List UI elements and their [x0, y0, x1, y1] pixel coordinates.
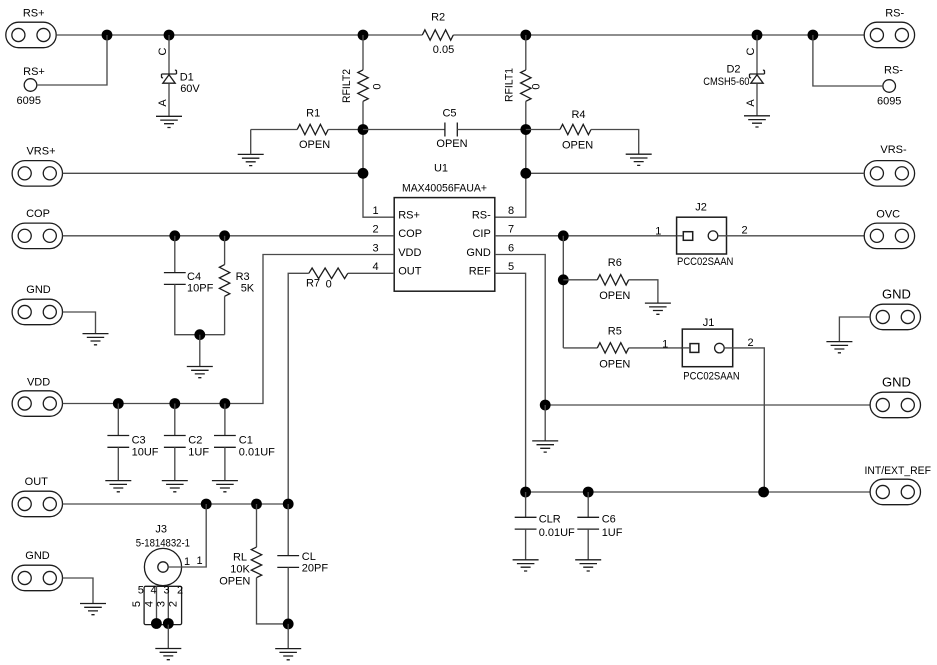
connector GND [12, 299, 62, 325]
svg-text:COP: COP [398, 228, 422, 240]
svg-text:1UF: 1UF [602, 527, 623, 539]
svg-text:GND: GND [882, 375, 911, 390]
svg-text:0: 0 [372, 84, 384, 90]
wire J2 pin2 to OVC [718, 235, 864, 237]
svg-text:C3: C3 [132, 434, 146, 446]
ground RL/CL [275, 649, 301, 660]
svg-text:5K: 5K [241, 282, 255, 294]
svg-text:0: 0 [531, 84, 543, 90]
svg-text:CMSH5-60: CMSH5-60 [703, 76, 749, 88]
svg-text:RFILT1: RFILT1 [504, 68, 516, 102]
node junction VRS+ [358, 168, 369, 179]
svg-text:VRS+: VRS+ [26, 146, 55, 158]
connector RS+ [6, 22, 56, 48]
node junction RL/CL [283, 619, 294, 630]
svg-text:2: 2 [168, 601, 180, 607]
capacitor C1 0.01UF [224, 404, 226, 436]
connector VDD [12, 391, 62, 417]
ground CLR [513, 560, 539, 571]
svg-text:0.05: 0.05 [433, 44, 454, 56]
wire GND right1 to ground [839, 317, 870, 342]
connector COP [12, 223, 62, 249]
svg-text:3: 3 [156, 601, 168, 607]
svg-text:A: A [745, 99, 757, 107]
svg-text:0: 0 [326, 279, 332, 291]
svg-text:R5: R5 [608, 326, 622, 338]
svg-text:RS-: RS- [885, 8, 904, 20]
svg-text:3: 3 [372, 242, 378, 254]
diode D1 60V [162, 70, 177, 78]
node junction CL [283, 499, 294, 510]
ground [826, 342, 852, 353]
svg-text:1: 1 [662, 339, 668, 351]
svg-text:GND: GND [882, 287, 911, 302]
wire D1 cathode [168, 35, 170, 74]
ground C4/R3 [187, 367, 213, 378]
svg-text:10PF: 10PF [187, 282, 214, 294]
svg-text:20PF: 20PF [302, 563, 329, 575]
wire D2 anode [756, 83, 758, 115]
wire D1 anode [168, 83, 170, 116]
wire C4 top [174, 236, 176, 273]
wire GND stub to ground [544, 405, 546, 441]
svg-text:PCC02SAAN: PCC02SAAN [677, 256, 733, 268]
wire J3 pin 3 [167, 586, 169, 623]
node junction R1/C5 [358, 124, 369, 135]
wire to ground [199, 335, 201, 367]
svg-text:6: 6 [508, 242, 514, 254]
wire CIP vertical [562, 236, 564, 348]
resistor RFILT2 [358, 70, 368, 101]
wire pin7 CIP to J2 [495, 235, 677, 237]
capacitor C2 1UF [174, 404, 176, 436]
wire top rail RS+ to RS- [56, 34, 864, 36]
connector OUT [12, 491, 62, 517]
svg-text:VRS-: VRS- [880, 144, 907, 156]
wire GND to ground [63, 312, 96, 334]
resistor R5 OPEN [597, 343, 628, 353]
resistor R1 OPEN [297, 124, 328, 134]
node junction R6 [558, 274, 569, 285]
wire D2 cathode [756, 35, 758, 74]
node junction C5/R4 [520, 124, 531, 135]
svg-text:6095: 6095 [877, 96, 901, 108]
svg-text:VDD: VDD [398, 247, 421, 259]
connector RS- [864, 22, 914, 48]
wire J3 shield to ground [167, 625, 169, 649]
wire CL top [287, 504, 289, 556]
node junction J3 pin4 [151, 618, 162, 629]
svg-text:PCC02SAAN: PCC02SAAN [683, 371, 739, 383]
wire VRS+ rail [63, 172, 363, 174]
resistor RL 10K OPEN [251, 547, 261, 578]
svg-text:OVC: OVC [876, 209, 900, 221]
ground C6 [575, 560, 601, 571]
ground R4 [626, 154, 652, 165]
svg-text:RS+: RS+ [23, 66, 45, 78]
svg-text:J2: J2 [695, 202, 707, 214]
svg-text:RFILT2: RFILT2 [341, 69, 353, 103]
wire R3 top [224, 236, 226, 265]
wire pin5 REF [495, 273, 526, 492]
connector GND right2 [870, 392, 920, 418]
wire OUT rail [63, 503, 289, 505]
svg-text:5: 5 [131, 601, 143, 607]
node junction GND [540, 400, 551, 411]
node junction RFILT1 top [520, 30, 531, 41]
svg-text:2: 2 [747, 337, 753, 349]
svg-text:A: A [157, 99, 169, 107]
svg-text:4: 4 [150, 585, 156, 597]
wire COP rail to pin 2 [63, 235, 395, 237]
wire C5 left [363, 129, 445, 131]
svg-text:R3: R3 [236, 271, 250, 283]
header J1 PCC02SAAN [682, 329, 732, 367]
svg-text:0.01UF: 0.01UF [539, 527, 575, 539]
ground D2 [744, 116, 770, 127]
svg-text:R1: R1 [306, 107, 320, 119]
svg-text:3: 3 [164, 585, 170, 597]
svg-text:D2: D2 [726, 64, 740, 76]
node junction CIP [558, 230, 569, 241]
capacitor CL 20PF [277, 556, 299, 568]
connector GND [12, 565, 62, 591]
diode D2 CMSH5-60 [750, 70, 765, 78]
svg-text:R2: R2 [431, 12, 445, 24]
svg-text:OPEN: OPEN [299, 139, 330, 151]
wire R6 left [563, 279, 597, 281]
wire RFILT2 bottom to U1 pin1 [363, 101, 394, 217]
svg-text:10UF: 10UF [132, 447, 159, 459]
svg-text:GND: GND [25, 550, 50, 562]
wire pin6 GND [495, 255, 545, 406]
wire RFILT2 top [362, 35, 364, 70]
node junction C6 [583, 487, 594, 498]
wire J1 internal [682, 347, 690, 349]
svg-text:1: 1 [184, 556, 190, 568]
svg-text:OPEN: OPEN [436, 138, 467, 150]
wire RL bottom [257, 578, 289, 624]
svg-text:COP: COP [26, 208, 50, 220]
ground C1 [212, 481, 238, 492]
connector VRS+ [12, 161, 62, 187]
svg-text:C6: C6 [602, 514, 616, 526]
node junction D2 [752, 30, 763, 41]
svg-text:0.01UF: 0.01UF [239, 447, 275, 459]
svg-text:REF: REF [469, 266, 491, 278]
connector J3 5-1814832-1 [144, 548, 181, 585]
op-amp U1 MAX40056FAUA+ [394, 198, 495, 292]
wire GND rail [545, 404, 870, 406]
header J2 PCC02SAAN [677, 217, 727, 254]
svg-text:GND: GND [466, 247, 491, 259]
resistor RFILT1 [521, 70, 531, 101]
resistor R4 OPEN [560, 124, 591, 134]
svg-text:10K: 10K [230, 564, 250, 576]
connector OVC [864, 223, 914, 249]
svg-text:OPEN: OPEN [562, 140, 593, 152]
svg-text:GND: GND [26, 284, 51, 296]
svg-text:INT/EXT_REF: INT/EXT_REF [864, 465, 931, 477]
ground C2 [162, 481, 188, 492]
svg-text:D1: D1 [180, 72, 194, 84]
svg-text:RL: RL [233, 552, 247, 564]
capacitor CLR 0.01UF [525, 492, 527, 517]
svg-text:C4: C4 [187, 271, 201, 283]
ground C3 [105, 481, 131, 492]
wire RS- tp to rail [813, 35, 883, 86]
wire pin4 to R7 [348, 272, 394, 274]
svg-text:7: 7 [508, 224, 514, 236]
wire C5 right [457, 129, 526, 131]
svg-text:RS+: RS+ [398, 209, 420, 221]
wire RS+ tp to rail [37, 35, 107, 85]
svg-text:C: C [157, 47, 169, 55]
wire J1 pin2 down to REF rail [724, 348, 764, 492]
svg-text:MAX40056FAUA+: MAX40056FAUA+ [402, 183, 487, 195]
wire R4 left [526, 129, 560, 131]
node junction J3 [201, 499, 212, 510]
node junction C3 [113, 398, 124, 409]
svg-text:OPEN: OPEN [219, 575, 250, 587]
svg-text:1: 1 [655, 226, 661, 238]
svg-text:1UF: 1UF [188, 447, 209, 459]
svg-text:CIP: CIP [472, 228, 490, 240]
svg-text:R4: R4 [571, 109, 585, 121]
wire to ground [287, 624, 289, 649]
node junction J1 pin2 [758, 487, 769, 498]
node junction C1 [220, 398, 231, 409]
connector INT/EXT_REF [870, 479, 920, 505]
wire RL top [256, 504, 258, 547]
wire J3 pin1 to OUT rail [168, 504, 206, 567]
node junction CLR [520, 487, 531, 498]
node junction R3 [219, 230, 230, 241]
wire R7 to OUT rail [288, 273, 309, 504]
ground R6 [645, 303, 671, 314]
svg-text:J1: J1 [703, 317, 715, 329]
node junction RS+ tp [102, 30, 113, 41]
capacitor C4 10PF [164, 273, 186, 285]
node junction C2 [169, 398, 180, 409]
svg-text:60V: 60V [180, 83, 200, 95]
svg-text:OUT: OUT [25, 476, 49, 488]
wire R6 to ground [629, 280, 658, 303]
capacitor C6 1UF [587, 492, 589, 517]
wire R3 bottom [224, 296, 226, 334]
wire VDD rail to pin 3 [63, 255, 395, 404]
wire R4 right to ground [591, 130, 639, 155]
svg-text:CLR: CLR [539, 514, 561, 526]
wire R5 left [563, 347, 597, 349]
svg-text:OPEN: OPEN [599, 359, 630, 371]
wire C4 bottom [175, 284, 225, 334]
ground [80, 604, 106, 615]
svg-text:CL: CL [302, 551, 316, 563]
connector VRS- [864, 161, 914, 187]
svg-text:4: 4 [372, 261, 378, 273]
svg-text:C: C [745, 47, 757, 55]
node junction D1 [164, 30, 175, 41]
ground [83, 334, 109, 345]
svg-text:R6: R6 [608, 257, 622, 269]
svg-text:C1: C1 [239, 434, 253, 446]
svg-text:5: 5 [138, 585, 144, 597]
ground J3 [155, 649, 181, 660]
resistor R3 5K [219, 265, 229, 297]
wire RFILT1 bottom to U1 pin8 [495, 101, 526, 217]
wire VRS- rail [526, 172, 864, 174]
wire J3 pin 4 [156, 586, 158, 623]
wire GND to ground [63, 578, 93, 604]
svg-text:C2: C2 [188, 434, 202, 446]
svg-text:1: 1 [372, 205, 378, 217]
svg-text:R7: R7 [306, 278, 320, 290]
svg-text:1: 1 [196, 555, 202, 567]
svg-text:RS+: RS+ [23, 8, 45, 20]
node junction VRS- [520, 168, 531, 179]
ground GND net [532, 441, 558, 452]
svg-text:U1: U1 [434, 162, 448, 174]
svg-text:2: 2 [177, 585, 183, 597]
svg-text:2: 2 [372, 224, 378, 236]
test point RS- 6095 [883, 80, 896, 93]
svg-text:2: 2 [742, 225, 748, 237]
svg-text:RS-: RS- [472, 209, 491, 221]
wire RFILT1 top [525, 35, 527, 70]
svg-text:4: 4 [144, 601, 156, 607]
svg-text:J3: J3 [155, 524, 167, 536]
node junction RS- tp [808, 30, 819, 41]
svg-text:OPEN: OPEN [599, 290, 630, 302]
svg-text:C5: C5 [442, 108, 456, 120]
wire J2 internal [677, 235, 684, 237]
ground R1 [238, 154, 264, 165]
resistor R6 OPEN [597, 275, 628, 285]
resistor R2 [422, 30, 453, 40]
wire CL bottom [287, 567, 289, 624]
svg-text:RS-: RS- [884, 65, 903, 77]
capacitor C5 OPEN [445, 123, 457, 137]
connector GND right1 [870, 304, 920, 330]
svg-text:OUT: OUT [398, 266, 422, 278]
svg-text:8: 8 [508, 205, 514, 217]
ground D1 [156, 116, 182, 127]
wire R5 to J1 [629, 347, 683, 349]
svg-text:VDD: VDD [27, 377, 50, 389]
capacitor C3 10UF [117, 404, 119, 436]
node junction RL [251, 499, 262, 510]
svg-text:6095: 6095 [17, 95, 41, 107]
svg-text:5-1814832-1: 5-1814832-1 [136, 538, 190, 550]
J3 shield pins 5 4 3 2 [144, 586, 182, 624]
node junction C4 [169, 230, 180, 241]
node junction RFILT2 top [358, 30, 369, 41]
node junction J3 pin3 [163, 618, 174, 629]
resistor R7 0 [309, 268, 348, 279]
wire INT/EXT_REF rail [526, 491, 871, 493]
wire R1 left [251, 130, 298, 155]
svg-text:5: 5 [508, 261, 514, 273]
wire R1 to node [328, 129, 363, 131]
test point RS+ 6095 [24, 79, 37, 92]
node junction C4/R3 gnd [194, 329, 205, 340]
